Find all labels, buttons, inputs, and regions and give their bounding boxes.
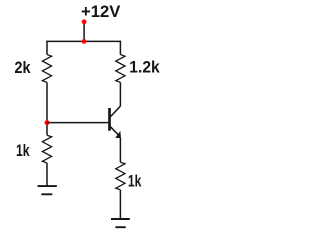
ground right	[111, 219, 130, 227]
wire right branch upper	[119, 41, 121, 55]
node supply rail junction dot	[82, 39, 87, 44]
resistor R3 1.2k	[116, 55, 125, 83]
svg-text:1.2k: 1.2k	[129, 57, 160, 76]
wire base	[47, 122, 108, 124]
resistor R1 2k	[42, 55, 51, 83]
wire left branch lower	[46, 163, 48, 186]
svg-text:2k: 2k	[15, 59, 32, 77]
wire top supply rail	[46, 40, 121, 42]
wire collector	[119, 82, 121, 106]
collector diagonal	[111, 106, 121, 116]
transistor Q1	[110, 106, 121, 138]
wire +12V stub	[83, 22, 85, 42]
base bar	[108, 108, 111, 131]
wire right branch lower	[119, 190, 121, 219]
svg-text:+12V: +12V	[81, 3, 120, 21]
svg-text:1k: 1k	[128, 172, 142, 190]
svg-text:1k: 1k	[16, 142, 30, 160]
node +12V top dot	[82, 19, 87, 24]
wire emitter	[119, 138, 121, 163]
node base junction dot	[45, 120, 50, 125]
emitter diagonal	[111, 127, 119, 135]
ground left	[38, 186, 57, 194]
resistor R4 1k	[116, 162, 125, 190]
emitter arrowhead	[115, 131, 121, 138]
wire left branch middle	[46, 82, 48, 135]
wire left branch upper	[46, 41, 48, 55]
resistor R2 1k	[42, 135, 51, 163]
